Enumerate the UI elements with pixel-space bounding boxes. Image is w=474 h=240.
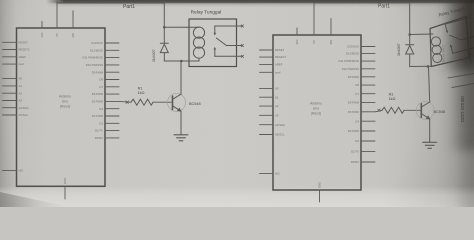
pin 5V (left Arduino) <box>55 2 59 37</box>
pin RESET (right Arduino) <box>260 48 285 52</box>
wire emitter down to ground (right) <box>429 119 431 142</box>
wire 5V top rail (right) <box>314 2 410 4</box>
pin A4/SDA (right Arduino) <box>260 123 286 127</box>
relay switch contacts (right, slanted) <box>444 18 474 54</box>
pin D3 PWM (left Arduino) <box>92 114 119 118</box>
pin D13/SCK (right Arduino) <box>347 45 375 49</box>
pin D11 PWM/MOSI (left Arduino) <box>83 56 119 60</box>
pin A4/SDA (left Arduino) <box>3 106 29 110</box>
op: left circuit <box>3 2 244 200</box>
relay RL1 body (left) <box>189 19 237 67</box>
wire collector up to junction (right) <box>429 67 430 103</box>
pin VIN (right Arduino) <box>329 19 333 45</box>
pin D6 PWM (left Arduino) <box>92 92 119 96</box>
wire emitter down to ground (left) <box>180 111 182 135</box>
wire diode anode to coil bottom (left) <box>164 60 199 62</box>
pin D10 PWM/SS (right Arduino) <box>342 67 375 71</box>
pin A2 (left Arduino) <box>3 91 23 95</box>
pin D7 (left Arduino) <box>99 85 119 89</box>
op: right circuit <box>260 3 474 202</box>
wire R1 to base (right) <box>404 109 421 111</box>
pin A0 (right Arduino) <box>260 87 279 91</box>
node pin end mark (right R1 wire) <box>378 109 381 112</box>
pin D7 (right Arduino) <box>355 92 375 96</box>
pin D10 PWM/SS (left Arduino) <box>86 63 119 67</box>
Arduino Uno U2 (right) body <box>273 35 361 190</box>
node pin end mark (left R1 wire) <box>126 101 129 104</box>
pin D9 PWM (left Arduino) <box>92 70 119 74</box>
pin 5V (right Arduino) <box>312 3 316 44</box>
pin D5 PWM (right Arduino) <box>348 110 375 114</box>
wire D5 to R1 (right) <box>375 110 382 112</box>
pin D9 PWM (right Arduino) <box>348 75 375 79</box>
relay switch contacts (left) <box>214 26 243 56</box>
ground symbol (right) <box>423 142 437 148</box>
pin A0 (left Arduino) <box>3 77 23 81</box>
pin D3 PWM (right Arduino) <box>348 129 375 133</box>
pin AREF (left Arduino) <box>3 55 27 59</box>
pin D11 PWM/MOSI (right Arduino) <box>339 59 375 63</box>
wire rail drop to diode/relay (left) <box>163 2 165 44</box>
pin D0/RX (left Arduino) <box>95 136 119 140</box>
page curl shadow (top-right) <box>440 0 474 220</box>
pin D12/MISO (left Arduino) <box>90 48 119 52</box>
node junction anode/collector (right) <box>427 65 430 68</box>
node junction anode/collector (left) <box>180 60 183 63</box>
pin 3V3 (right Arduino) <box>295 28 299 45</box>
pin D8 (right Arduino) <box>355 83 375 87</box>
relay RL2 body (right, page-curled) <box>430 17 470 67</box>
wire R1 to base (left) <box>153 101 172 103</box>
pin A3 (right Arduino) <box>260 113 279 117</box>
pin RESET2 (left Arduino) <box>3 48 30 52</box>
node junction rail/coil (right) <box>408 33 411 36</box>
wire diode anode to coil bottom (right) <box>410 65 432 67</box>
pin D8 (left Arduino) <box>99 78 119 82</box>
pin GND (left Arduino) <box>63 178 67 199</box>
pin A1 (right Arduino) <box>260 95 279 99</box>
pin D5 PWM (left Arduino) <box>92 100 119 104</box>
pin N/C (right Arduino) <box>260 172 280 176</box>
pin A3 (left Arduino) <box>3 99 23 103</box>
wire junction to relay coil top (left) <box>164 26 199 28</box>
pin ioref (left Arduino) <box>3 62 25 66</box>
pin D13/SCK (left Arduino) <box>91 41 119 45</box>
relay coil (right) <box>431 37 442 63</box>
pin D0/RX (right Arduino) <box>351 160 375 164</box>
wire D5 to R1 (left) <box>119 100 131 103</box>
relay coil (left) <box>189 27 205 61</box>
pin D1/TX (left Arduino) <box>95 129 119 133</box>
wire 5V top rail (left) <box>57 2 164 4</box>
wire fragments below relay (right page curl) <box>448 74 474 88</box>
resistor R1 (left) <box>131 99 153 105</box>
pin VIN (left Arduino) <box>71 11 75 38</box>
pin D4 (right Arduino) <box>355 119 375 123</box>
pin A1 (left Arduino) <box>3 84 23 88</box>
transistor Q2 BC548 (right) <box>416 102 434 120</box>
pin N/C (left Arduino) <box>3 169 24 173</box>
node junction rail/coil (left) <box>163 26 166 29</box>
pin RESET2 (right Arduino) <box>260 55 287 59</box>
pin A2 (right Arduino) <box>260 104 279 108</box>
pin A5/SCL (right Arduino) <box>260 133 286 137</box>
diode D1 1N4007 (left) <box>160 43 168 61</box>
relay pin end marks (left) <box>241 25 243 58</box>
pin RESET (left Arduino) <box>3 40 29 44</box>
wire rail drop to diode (right) <box>409 3 411 45</box>
pin D2 (left Arduino) <box>99 121 119 125</box>
Arduino Uno U2 (right) name label <box>310 102 322 116</box>
pin D6 PWM (right Arduino) <box>348 101 375 105</box>
pin AREF (right Arduino) <box>260 63 283 67</box>
transistor Q1 BC548 (left) <box>168 94 186 112</box>
pin 3V3 (left Arduino) <box>40 22 44 38</box>
wire junction to relay coil top (right) <box>410 33 433 36</box>
wire collector up to junction (left) <box>180 61 182 94</box>
pin D2 (right Arduino) <box>355 139 375 143</box>
Arduino Uno U1 (left) name label <box>59 95 71 109</box>
resistor R1 (right) <box>382 107 404 113</box>
pin D4 (left Arduino) <box>99 107 119 111</box>
pin D12/MISO (right Arduino) <box>346 52 375 56</box>
Arduino Uno U1 (left) body <box>17 28 106 186</box>
pin A5/SCL (left Arduino) <box>3 113 29 117</box>
pin GND (right Arduino) <box>318 182 322 202</box>
pin ioref (right Arduino) <box>260 70 281 74</box>
pin D1/TX (right Arduino) <box>351 150 375 154</box>
diode D2 1N4007 (right) <box>406 45 414 67</box>
ground symbol (left) <box>174 135 188 141</box>
